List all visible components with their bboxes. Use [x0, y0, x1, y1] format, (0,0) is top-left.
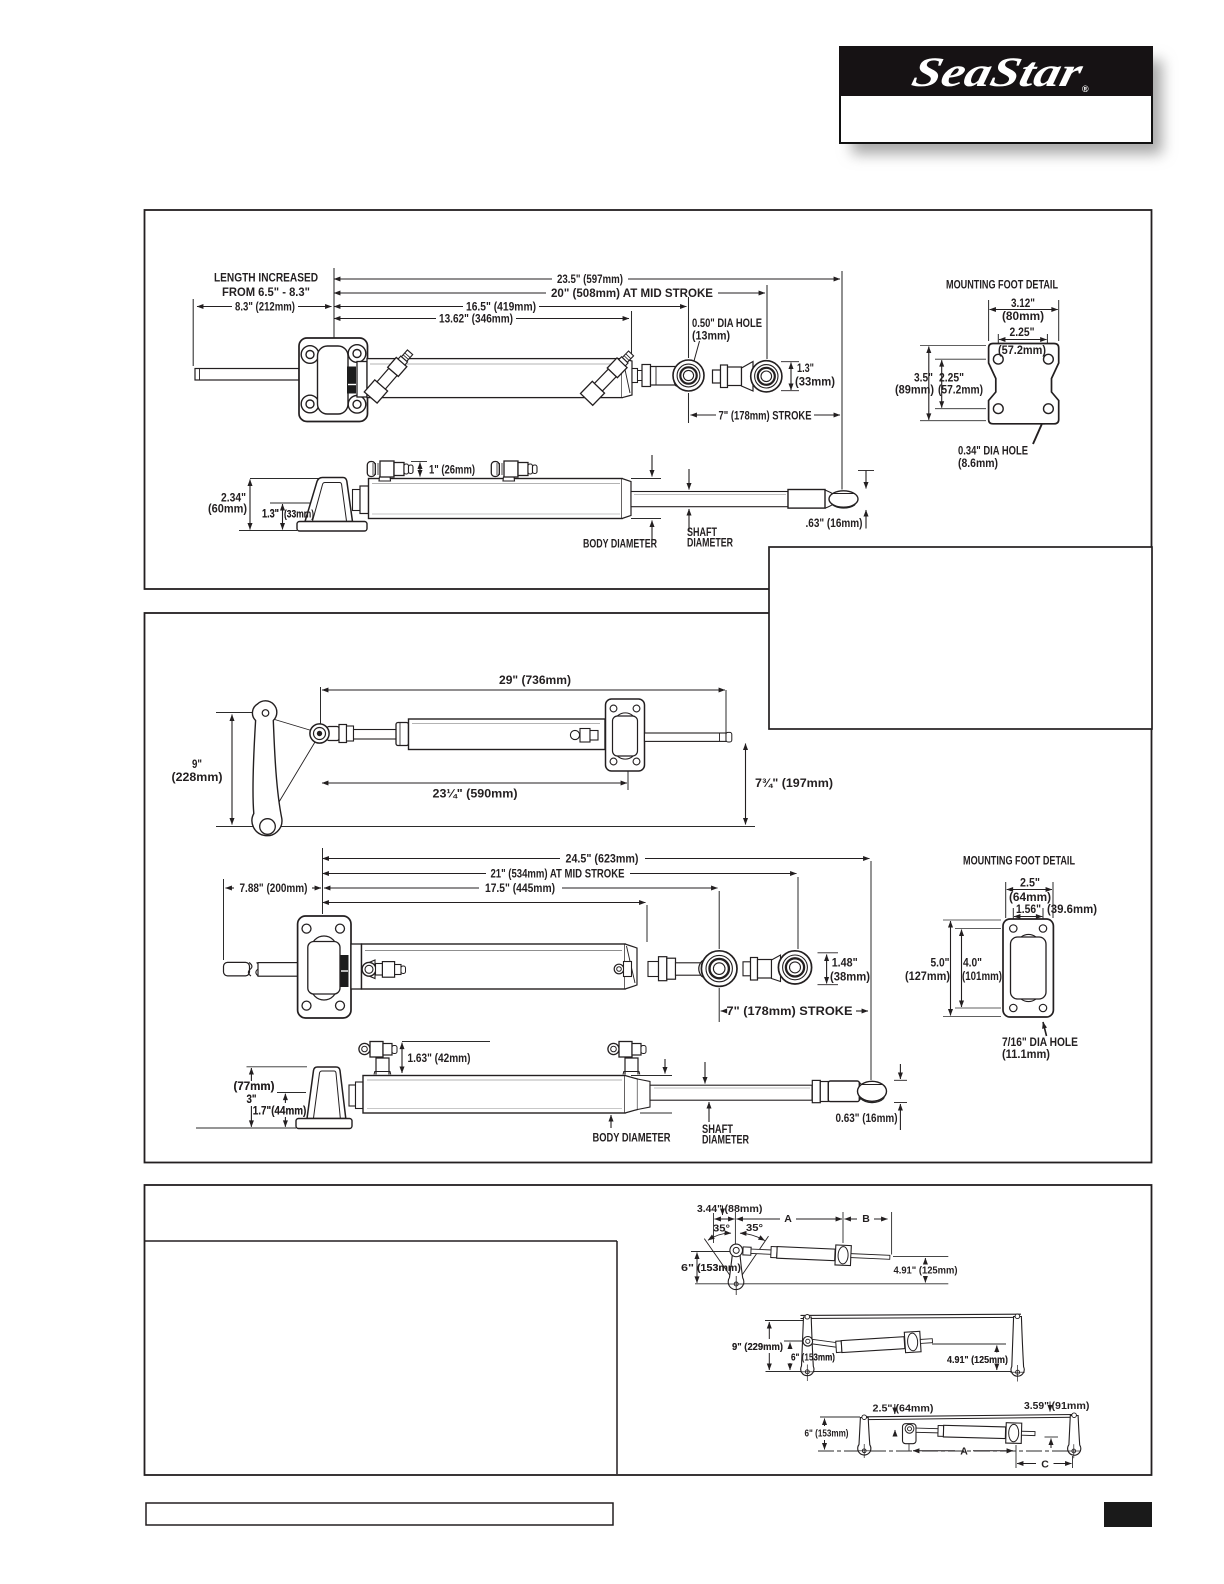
body end wedge: [622, 359, 632, 398]
svg-text:(33mm): (33mm): [284, 509, 314, 521]
left arm C: [857, 1415, 871, 1458]
small fitting on body: [570, 730, 579, 739]
mounting plate front: [299, 338, 368, 422]
body: [367, 359, 622, 398]
svg-text:5.0": 5.0": [931, 958, 950, 970]
bleed fitting 1: [364, 347, 416, 403]
dim 3.12: [990, 309, 1058, 311]
svg-text:6" (153mm): 6" (153mm): [791, 1352, 835, 1364]
35 deg fan lines: [704, 1239, 736, 1284]
svg-text:MOUNTING FOOT DETAIL: MOUNTING FOOT DETAIL: [946, 280, 1058, 292]
svg-text:35°: 35°: [746, 1222, 763, 1234]
ext line body end: [631, 311, 633, 356]
cylinder A: [743, 1241, 891, 1267]
svg-text:4.91" (125mm): 4.91" (125mm): [894, 1265, 958, 1277]
body/shaft arrows: [664, 1059, 666, 1074]
A dim: [913, 1450, 955, 1452]
svg-text:.63" (16mm): .63" (16mm): [806, 518, 863, 530]
dark shadow: [347, 367, 356, 394]
svg-text:21" (534mm) AT MID STROKE: 21" (534mm) AT MID STROKE: [491, 869, 625, 881]
svg-text:1.48": 1.48": [832, 958, 858, 970]
T fitting 1 on body: [367, 461, 413, 481]
svg-text:23¼" (590mm): 23¼" (590mm): [433, 789, 518, 801]
ball joint 29: [310, 724, 329, 743]
svg-text:4.91" (125mm): 4.91" (125mm): [947, 1354, 1008, 1366]
detached rod end 24.5: [743, 955, 781, 982]
dim 7.75: [745, 744, 747, 825]
dim unlabeled: [323, 902, 646, 904]
svg-text:®: ®: [1082, 84, 1089, 94]
svg-text:(13mm): (13mm): [692, 331, 730, 343]
svg-text:(91mm): (91mm): [1052, 1400, 1090, 1412]
right arm C: [1067, 1413, 1081, 1458]
svg-text:13.62" (346mm): 13.62" (346mm): [439, 314, 513, 326]
detached rod end: [713, 362, 754, 392]
dim 1.3in eye: [790, 363, 792, 391]
bleed fitting 2: [580, 347, 637, 405]
body: [363, 1076, 625, 1114]
plate holes: [301, 345, 366, 413]
svg-text:29" (736mm): 29" (736mm): [499, 675, 571, 687]
plate b2 detail: [1003, 919, 1053, 1017]
svg-text:0.63" (16mm): 0.63" (16mm): [836, 1113, 898, 1125]
ext lines 3.12: [988, 300, 990, 341]
mounting foot plate (notched): [989, 344, 1059, 424]
svg-text:2.25": 2.25": [1010, 327, 1035, 339]
svg-text:(33mm): (33mm): [795, 377, 835, 389]
head cap: [357, 362, 367, 398]
svg-text:2.5": 2.5": [873, 1403, 893, 1415]
svg-text:B: B: [862, 1213, 870, 1225]
box1 side view: [239, 462, 661, 531]
svg-text:3.59": 3.59": [1024, 1400, 1049, 1412]
foot side: [307, 1067, 346, 1119]
svg-text:(39.6mm): (39.6mm): [1047, 904, 1097, 916]
dim 2.34: [249, 480, 251, 530]
cylinder B: [812, 1339, 840, 1347]
box 1 frame: [145, 210, 1152, 589]
dim 2.25 vert: [941, 360, 943, 408]
ext line eye1: [688, 297, 690, 358]
svg-text:9" (229mm): 9" (229mm): [732, 1341, 783, 1353]
ticks 2.25: [997, 334, 999, 344]
shaft side: [631, 490, 858, 509]
ref lines 2.25 vert: [935, 358, 986, 360]
C dim: [1017, 1463, 1036, 1465]
svg-text:2.5": 2.5": [1020, 878, 1040, 890]
cylinder C: [916, 1420, 1035, 1443]
neck: [349, 1085, 356, 1106]
body side: [369, 479, 623, 519]
logo shadow: [852, 60, 1162, 154]
dim 1.3 side: [282, 504, 284, 530]
svg-text:BODY DIAMETER: BODY DIAMETER: [583, 539, 658, 551]
svg-text:8.3" (212mm): 8.3" (212mm): [235, 302, 295, 314]
ext line eye1 lower: [688, 393, 690, 423]
svg-text:4.0": 4.0": [963, 958, 982, 970]
shaft end pieces: [632, 362, 691, 389]
dim 1.48: [826, 955, 828, 984]
svg-text:1.63" (42mm): 1.63" (42mm): [408, 1053, 471, 1065]
dim 1.7: [284, 1094, 286, 1103]
leader 0.50 hole: [692, 341, 700, 370]
dim 0.63: [894, 1079, 907, 1081]
svg-text:(11.1mm): (11.1mm): [1002, 1049, 1050, 1061]
baseline dash-dot C: [818, 1450, 1078, 1452]
dim 23.5in: [334, 278, 552, 280]
rod with break: [224, 962, 299, 976]
box2 side view drawing: [296, 1067, 650, 1129]
dim 13.62in: [334, 318, 436, 320]
ext line 23.5 right (long): [841, 271, 843, 490]
dim 23.25: [322, 782, 627, 784]
tie bar C: [864, 1415, 1074, 1417]
dim 17.5: [324, 887, 479, 889]
dim 16.5in: [334, 306, 463, 308]
white overlay box: [769, 547, 1152, 729]
box2 side view: [196, 1042, 672, 1129]
T fitting 2 on body: [491, 461, 537, 481]
logo black band: [839, 46, 1153, 96]
svg-text:MOUNTING FOOT DETAIL: MOUNTING FOOT DETAIL: [963, 856, 1075, 868]
svg-text:(77mm): (77mm): [234, 1081, 275, 1093]
svg-text:(57.2mm): (57.2mm): [938, 385, 983, 397]
svg-text:0.50" DIA HOLE: 0.50" DIA HOLE: [692, 318, 762, 330]
svg-text:16.5" (419mm): 16.5" (419mm): [466, 302, 536, 314]
svg-text:(60mm): (60mm): [208, 504, 247, 516]
svg-text:0.34" DIA HOLE: 0.34" DIA HOLE: [958, 446, 1028, 458]
dim 29in: [322, 689, 725, 691]
svg-text:(64mm): (64mm): [896, 1403, 934, 1415]
svg-text:(127mm): (127mm): [905, 971, 950, 983]
left fitting on body: [362, 960, 405, 979]
footer box: [146, 1503, 613, 1525]
svg-text:3.44": 3.44": [697, 1203, 722, 1215]
tiller A: [728, 1252, 745, 1295]
svg-text:6": 6": [681, 1262, 694, 1274]
svg-text:BODY DIAMETER: BODY DIAMETER: [593, 1133, 672, 1145]
ext line rod tip: [192, 299, 194, 366]
svg-text:(8.6mm): (8.6mm): [958, 458, 998, 470]
tiller arm: [252, 701, 318, 836]
svg-text:20" (508mm) AT MID STROKE: 20" (508mm) AT MID STROKE: [551, 288, 713, 300]
neck: [353, 490, 361, 511]
svg-text:3.5": 3.5": [914, 373, 933, 385]
svg-text:(228mm): (228mm): [172, 772, 223, 784]
rod end side: [788, 490, 825, 509]
dim 7.88: [226, 887, 235, 889]
4.91 dim: [924, 1258, 926, 1263]
svg-text:(80mm): (80mm): [1002, 311, 1044, 323]
svg-text:7.88" (200mm): 7.88" (200mm): [240, 883, 308, 895]
dim 3.5 vert: [928, 347, 930, 420]
body diameter arrows: [651, 455, 653, 477]
baselines: [691, 1251, 830, 1253]
shaft diameter arrows: [688, 469, 690, 490]
logo box: [840, 47, 1152, 143]
dim 7in stroke: [691, 414, 717, 416]
svg-text:3": 3": [247, 1094, 257, 1106]
right arm B: [1010, 1314, 1025, 1382]
dim 9in: [231, 715, 233, 825]
svg-text:FROM 6.5" - 8.3": FROM 6.5" - 8.3": [222, 285, 310, 299]
svg-text:3.12": 3.12": [1011, 298, 1035, 310]
L fitting left (box2 side): [359, 1042, 397, 1075]
dim .63: [858, 470, 874, 472]
rod end eye 1: [673, 360, 704, 391]
L fitting right (box2 side): [608, 1042, 646, 1075]
shaft pieces 24.5: [648, 957, 713, 981]
6in dim: [696, 1253, 698, 1283]
shaft 29: [645, 733, 727, 741]
svg-text:A: A: [784, 1213, 792, 1225]
box 3 frame: [145, 1185, 1152, 1475]
svg-text:DIAMETER: DIAMETER: [702, 1135, 750, 1147]
svg-text:9": 9": [192, 759, 202, 771]
svg-text:7" (178mm) STROKE: 7" (178mm) STROKE: [719, 409, 812, 423]
dim 20in: [334, 292, 546, 294]
svg-text:1.7"(44mm): 1.7"(44mm): [253, 1106, 307, 1118]
svg-text:(64mm): (64mm): [1009, 892, 1051, 904]
dim 8.3in: [197, 306, 232, 308]
plate 24.5: [298, 916, 637, 1018]
svg-text:2.25": 2.25": [939, 373, 964, 385]
svg-text:24.5" (623mm): 24.5" (623mm): [566, 854, 639, 866]
svg-text:(153mm): (153mm): [697, 1262, 741, 1274]
svg-text:23.5" (597mm): 23.5" (597mm): [557, 274, 623, 286]
shaft side 2: [650, 1080, 887, 1103]
dim 21: [323, 873, 487, 875]
center boss: [320, 354, 346, 362]
svg-text:1" (26mm): 1" (26mm): [429, 465, 475, 477]
box 3 inner divider: [145, 1240, 617, 1242]
svg-text:7" (178mm) STROKE: 7" (178mm) STROKE: [727, 1006, 853, 1018]
svg-text:35°: 35°: [713, 1223, 730, 1235]
left arm B: [800, 1315, 815, 1382]
dim 1.63: [401, 1043, 403, 1073]
dim 3in: [250, 1068, 252, 1081]
svg-text:A: A: [960, 1446, 968, 1458]
svg-text:1.56": 1.56": [1016, 904, 1041, 916]
svg-text:C: C: [1041, 1459, 1049, 1471]
svg-text:DIAMETER: DIAMETER: [687, 538, 734, 550]
dim 2.25 top: [999, 339, 1047, 341]
head cap + body: [351, 944, 362, 989]
svg-text:(101mm): (101mm): [962, 971, 1002, 983]
svg-text:1.3": 1.3": [797, 363, 814, 375]
svg-text:1.3": 1.3": [262, 509, 279, 521]
svg-text:SeaStar: SeaStar: [908, 50, 1088, 96]
svg-text:7/16" DIA HOLE: 7/16" DIA HOLE: [1002, 1037, 1078, 1049]
svg-text:LENGTH INCREASED: LENGTH INCREASED: [214, 271, 318, 285]
right fitting on body: [614, 962, 631, 977]
svg-text:(88mm): (88mm): [725, 1203, 763, 1215]
dim 24.5: [323, 858, 561, 860]
ref lines 3.5: [920, 345, 986, 347]
pivot bracket C: [903, 1424, 917, 1451]
cylinder 29: [327, 719, 605, 750]
dim 7 stroke: [721, 1010, 724, 1012]
rod left: [195, 369, 299, 381]
rod end housing 1: [673, 362, 691, 389]
leader 0.34: [1033, 418, 1045, 444]
ext line 20 right: [766, 285, 768, 359]
svg-text:(38mm): (38mm): [830, 972, 870, 984]
box 2 frame: [145, 613, 1152, 1163]
svg-text:6" (153mm): 6" (153mm): [805, 1428, 849, 1440]
svg-text:7¾" (197mm): 7¾" (197mm): [755, 778, 833, 790]
box1 plan view cylinder: [195, 338, 632, 422]
svg-text:17.5" (445mm): 17.5" (445mm): [485, 883, 555, 895]
plate 29: [606, 699, 732, 771]
footer black box: [1104, 1502, 1152, 1527]
tie bar B: [801, 1314, 1022, 1315]
mounting foot side: [297, 478, 631, 532]
dim 1in fitting: [419, 463, 421, 477]
ext line plate left: [333, 268, 335, 338]
SeaStar script logo: [908, 50, 1088, 96]
svg-text:(57.2mm): (57.2mm): [998, 345, 1046, 357]
